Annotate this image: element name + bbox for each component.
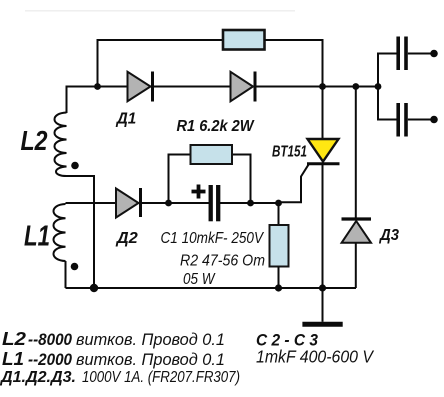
junction dot bottom rail cathode — [319, 284, 326, 291]
inductor L2 — [55, 113, 67, 177]
wire R2 to bottom rail — [278, 267, 280, 289]
wire row2 right — [220, 202, 279, 204]
scan artifact faint line — [25, 10, 295, 12]
svg-text:--8000: --8000 — [28, 330, 72, 349]
wire R1 branch left — [169, 155, 191, 204]
svg-text:R2 47-56 Om: R2 47-56 Om — [180, 253, 265, 270]
resistor R1 — [191, 145, 233, 164]
C1 plus sign — [192, 185, 206, 199]
svg-text:Д1.Д2.Д3.: Д1.Д2.Д3. — [0, 369, 76, 386]
diode row1 second — [231, 72, 256, 102]
svg-text:1000V 1A. (FR207.FR307): 1000V 1A. (FR207.FR307) — [82, 369, 240, 386]
wire bottom rail — [66, 287, 357, 289]
svg-text:--2000: --2000 — [28, 350, 72, 369]
wire L2 top riser — [66, 86, 68, 114]
label L2 winding note — [2, 329, 225, 349]
L1 phasing dot — [71, 263, 79, 271]
junction dot bottom rail R2 — [275, 284, 282, 291]
capacitor C1 plates — [211, 185, 219, 221]
svg-text:C1 10mkF- 250V: C1 10mkF- 250V — [161, 230, 265, 247]
capacitor C2 — [398, 37, 431, 71]
resistor R2 — [270, 225, 289, 267]
svg-text:05 W: 05 W — [183, 271, 216, 288]
svg-text:L1: L1 — [24, 221, 50, 253]
svg-text:Д3: Д3 — [378, 227, 399, 244]
svg-text:L2: L2 — [2, 329, 26, 349]
label L1 winding note — [2, 349, 225, 369]
junction dot bottom rail left — [90, 284, 98, 292]
wire L1 bottom riser — [65, 261, 67, 288]
wire top resistor to anode riser — [264, 40, 323, 139]
svg-text:1mkF 400-600 V: 1mkF 400-600 V — [256, 347, 375, 367]
wire D3 bottom — [355, 243, 357, 288]
svg-text:L2: L2 — [21, 125, 48, 156]
junction dot row1 anode — [319, 83, 326, 90]
wire L2 bottom to crossing riser — [67, 176, 95, 288]
resistor top (unlabeled) — [223, 30, 265, 50]
wire D3 top — [355, 87, 357, 218]
thyristor BT151 — [307, 139, 340, 164]
label diode types note — [0, 369, 240, 386]
svg-text:Д1: Д1 — [115, 111, 136, 128]
node B dot — [247, 200, 254, 207]
junction dot row1 D3 — [352, 83, 359, 90]
inductor L1 — [54, 204, 66, 261]
diode D2 — [116, 188, 141, 218]
capacitor C3 — [398, 103, 431, 137]
ground — [302, 322, 342, 327]
wire BT151 cathode — [322, 164, 324, 288]
wire C2C3 bracket — [378, 54, 397, 120]
svg-text:Д2: Д2 — [115, 230, 139, 247]
wire row1 diode rail — [67, 86, 379, 88]
terminal dot C3 — [430, 116, 438, 124]
svg-text:L1: L1 — [2, 349, 24, 369]
wire ground riser — [322, 288, 324, 322]
svg-text:R1 6.2k 2W: R1 6.2k 2W — [177, 118, 256, 135]
junction dot row1 capbracket — [375, 83, 382, 90]
svg-text:BT151: BT151 — [272, 143, 307, 160]
diode D3 — [342, 219, 372, 243]
node C dot — [275, 200, 282, 207]
wire top-left riser and top wire — [98, 40, 223, 87]
junction dot row1 left — [94, 83, 101, 90]
wire thyristor gate — [279, 164, 310, 203]
wire R1 branch right — [232, 155, 251, 204]
L2 phasing dot — [71, 162, 79, 170]
terminal dot C2 — [430, 50, 438, 58]
diode D1 — [128, 72, 153, 102]
node A dot — [165, 200, 172, 207]
wire node C to R2 — [278, 203, 280, 226]
wire row2 left — [66, 202, 210, 204]
svg-text:витков. Провод 0.1: витков. Провод 0.1 — [76, 350, 225, 369]
svg-text:витков. Провод 0.1: витков. Провод 0.1 — [76, 330, 225, 349]
